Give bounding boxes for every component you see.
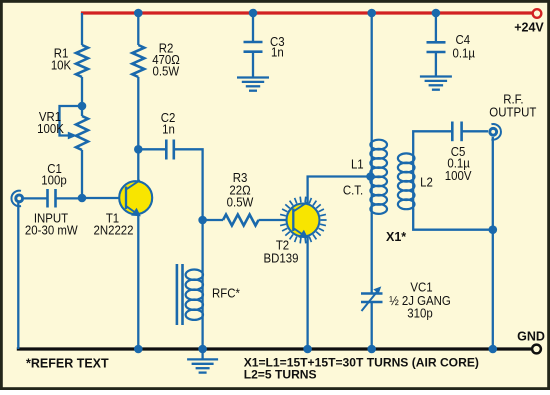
svg-text:RFC*: RFC*	[212, 286, 240, 301]
svg-text:BD139: BD139	[264, 251, 299, 266]
svg-text:L2: L2	[420, 175, 433, 190]
svg-text:L1: L1	[351, 157, 364, 172]
svg-text:20-30 mW: 20-30 mW	[25, 223, 78, 238]
svg-text:X1*: X1*	[386, 230, 406, 244]
VR1 wiper arrowhead	[68, 132, 77, 140]
wire rail to L1	[371, 13, 373, 142]
wire rail to C4	[435, 13, 437, 42]
transistor T2 body	[287, 204, 320, 237]
node R1/VR1	[78, 102, 87, 111]
node RFC / rail	[198, 345, 207, 354]
node L1 centre tap	[366, 172, 375, 181]
wire R1 to VR1 node	[81, 77, 83, 116]
wire output terminal down to ground rail	[492, 137, 494, 349]
capacitor C3	[244, 42, 263, 52]
T1 base bar	[125, 187, 127, 210]
potentiometer VR1 body	[76, 116, 88, 150]
svg-text:OUTPUT: OUTPUT	[489, 105, 536, 120]
VC1 arrow	[362, 291, 379, 312]
T2 base bar	[292, 209, 294, 232]
wire rail to R1	[81, 13, 83, 45]
T2 collector stroke	[293, 202, 307, 211]
wire C3 to ground	[252, 52, 254, 78]
wire C1 to base node	[56, 197, 83, 199]
node C2/R3/RFC	[198, 216, 207, 225]
input terminal J1	[11, 191, 24, 207]
svg-text:10K: 10K	[51, 58, 72, 73]
svg-text:100K: 100K	[37, 121, 64, 136]
node L2 / output wire	[489, 225, 498, 234]
node output wire / rail	[489, 345, 498, 354]
T1 emitter stroke	[126, 206, 140, 216]
svg-text:0.5W: 0.5W	[227, 195, 254, 210]
capacitor C4	[427, 42, 446, 52]
wire rail to ground symbol	[201, 349, 203, 359]
transistor T1 body	[119, 181, 152, 214]
ground below C4	[420, 75, 452, 77]
wire R3 to T2 base	[259, 219, 295, 221]
resistor R1	[76, 45, 88, 77]
RF output terminal	[488, 124, 501, 140]
svg-text:0.1µ: 0.1µ	[453, 46, 475, 61]
wire R2 to T1 collector	[137, 77, 139, 185]
svg-text:1n: 1n	[162, 122, 175, 137]
wire L2 bottom to output wire	[413, 209, 493, 230]
svg-text:+24V: +24V	[514, 21, 544, 35]
wire T2 collector to L1 centre tap	[308, 177, 369, 205]
wire node to C2	[138, 148, 166, 150]
svg-text:0.5W: 0.5W	[152, 64, 179, 79]
resistor R3	[223, 215, 259, 226]
node VC1 / rail	[367, 345, 376, 354]
node rail/R2	[134, 9, 143, 18]
inductor L2 (secondary)	[412, 153, 414, 210]
capacitor C1	[48, 189, 56, 208]
RFC core bars	[176, 264, 179, 325]
wire T2 emitter to ground rail	[306, 236, 308, 349]
svg-text:L2=5 TURNS: L2=5 TURNS	[244, 368, 317, 382]
RFC wire behind coil to rail	[201, 270, 203, 349]
svg-text:2N2222: 2N2222	[93, 223, 133, 238]
+24V rail (red)	[81, 11, 533, 14]
wire T1 emitter to ground rail	[137, 214, 139, 349]
node T1 emitter / rail	[134, 345, 143, 354]
resistor R2	[132, 45, 144, 77]
ground rail (bottom)	[17, 347, 531, 350]
wire C4 to ground	[435, 52, 437, 77]
wire base node to T1	[82, 197, 127, 199]
node rail/C4	[432, 9, 441, 18]
+24V terminal	[533, 9, 542, 18]
svg-text:C.T.: C.T.	[343, 183, 363, 198]
wire L1 bottom to VC1	[371, 213, 373, 294]
wire L2 top to C5	[413, 131, 452, 153]
wire node to R3	[203, 219, 223, 221]
node rail/L1	[367, 9, 376, 18]
GND terminal	[532, 345, 541, 354]
node R2/C2	[134, 145, 143, 154]
T2 emitter arrowhead	[298, 230, 308, 239]
wire rail to R2	[137, 13, 139, 45]
T2 emitter stroke	[293, 228, 307, 238]
variable capacitor VC1	[361, 294, 383, 303]
inductor L1 (primary)	[371, 140, 373, 213]
inductor RFC coil	[186, 270, 203, 280]
capacitor C2	[166, 140, 174, 160]
node rail/C3	[249, 9, 258, 18]
T1 collector stroke	[126, 180, 140, 189]
ground below C3	[237, 76, 269, 78]
svg-text:310p: 310p	[407, 306, 433, 321]
wire VC1 to ground rail	[371, 302, 373, 349]
node T2 emitter / rail	[303, 345, 312, 354]
capacitor C5	[452, 122, 461, 142]
svg-text:1n: 1n	[271, 45, 284, 60]
T2 heatsink spikes	[279, 197, 326, 244]
ground below RFC	[187, 358, 218, 360]
svg-text:*REFER TEXT: *REFER TEXT	[26, 357, 109, 371]
wire C5 to output terminal	[462, 130, 488, 132]
T1 emitter arrowhead	[131, 208, 141, 217]
svg-text:100p: 100p	[41, 173, 67, 188]
wire input terminal to C1	[24, 197, 48, 199]
wire node down to RFC	[201, 220, 203, 270]
wire input terminal down to ground rail	[17, 203, 19, 349]
svg-text:100V: 100V	[445, 168, 472, 183]
VR1 wiper wire	[60, 106, 83, 136]
wire C2 to R3 node	[174, 149, 203, 220]
wire VR1 to base node	[81, 150, 83, 198]
node: C1/R1/VR1/base junction	[78, 194, 87, 203]
wire rail to C3	[252, 13, 254, 42]
svg-text:GND: GND	[517, 330, 545, 344]
